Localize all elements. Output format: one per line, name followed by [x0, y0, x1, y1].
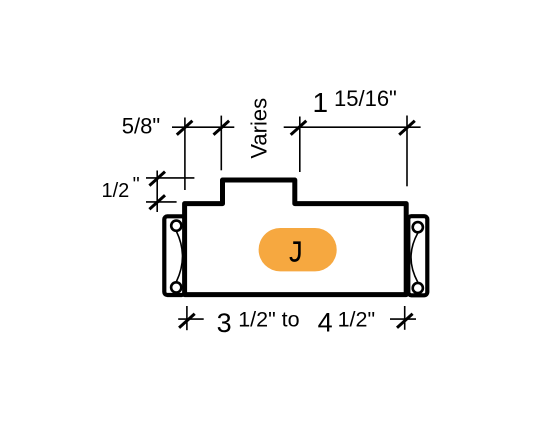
tick at 1 15/16 right: [399, 121, 415, 135]
bottom dimension line left stub: [178, 318, 204, 320]
1/2 upper extension line: [146, 177, 194, 179]
svg-text:1/2": 1/2": [338, 308, 376, 332]
extension line below 1 15/16 right tick: [406, 116, 408, 187]
bottom left tick: [179, 314, 195, 328]
left roller spring arc: [176, 232, 182, 282]
svg-text:5/8": 5/8": [122, 114, 160, 139]
svg-text:Varies: Varies: [246, 98, 271, 159]
top dimension line segment left (5/8 and Varies): [172, 126, 234, 128]
label pill J: [259, 228, 337, 271]
extension line below 5/8 right tick: [220, 116, 222, 171]
right roller spring arc: [411, 233, 418, 282]
bottom left extension line: [186, 306, 188, 330]
tick at 5/8 left: [177, 121, 193, 135]
1/2 lower tick: [149, 195, 165, 209]
extension line below 5/8 left tick: [184, 118, 186, 191]
right roller top wheel: [413, 222, 423, 232]
left roller top wheel: [171, 221, 181, 231]
svg-text:": ": [133, 174, 140, 196]
svg-text:3: 3: [217, 308, 232, 338]
svg-text:1/2" to: 1/2" to: [238, 308, 299, 332]
left roller housing: [164, 216, 185, 295]
1/2 dimension vertical line: [156, 171, 158, 213]
right roller housing: [408, 216, 427, 295]
bottom dimension line right stub: [390, 318, 416, 320]
bottom right extension line: [404, 306, 406, 330]
svg-text:1/2: 1/2: [102, 180, 130, 202]
svg-text:1: 1: [313, 87, 329, 118]
1/2 lower extension line: [146, 201, 177, 203]
left roller bottom wheel: [171, 282, 181, 292]
tick at varies right / 1 15/16 left: [291, 121, 307, 135]
tick at 5/8 right / varies left: [214, 121, 230, 135]
bottom right tick: [397, 314, 413, 328]
top dimension line segment right (1 15/16): [284, 126, 421, 128]
svg-text:15/16": 15/16": [334, 86, 397, 111]
right roller bottom wheel: [413, 283, 423, 293]
svg-text:4: 4: [318, 308, 333, 338]
1/2 upper tick: [149, 172, 165, 186]
extension line below varies right tick: [299, 117, 301, 173]
astragal profile outline: [185, 180, 407, 295]
letter J: [291, 243, 300, 261]
